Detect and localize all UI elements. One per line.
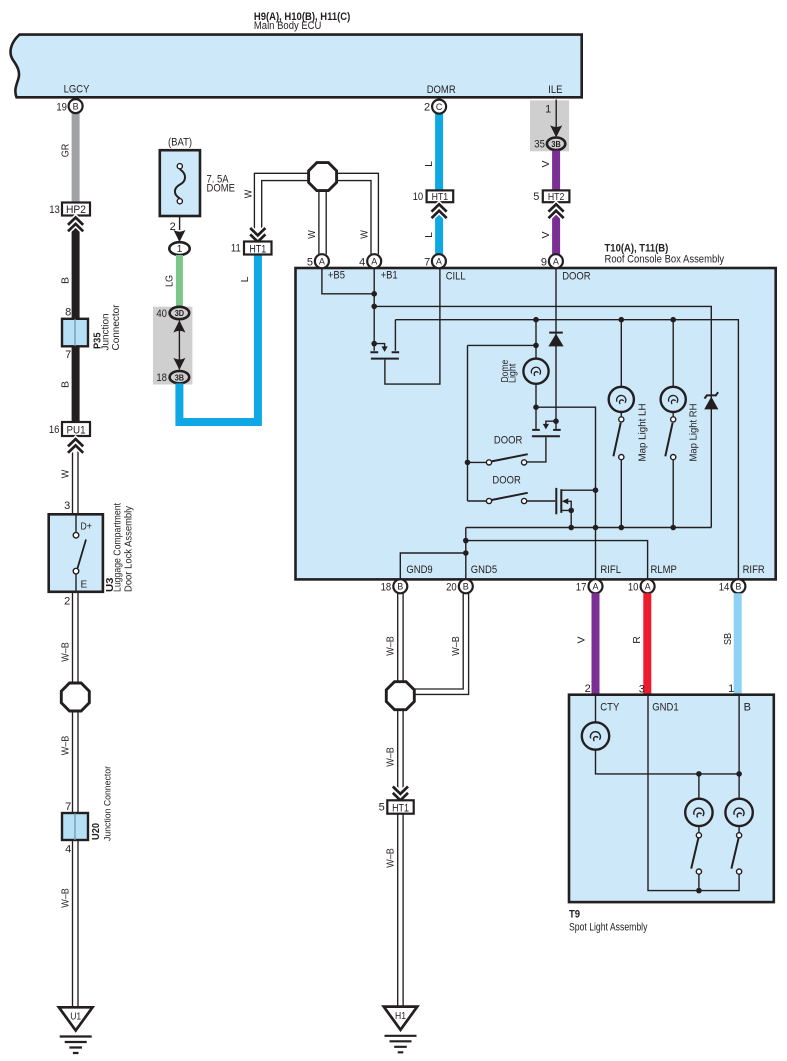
svg-text:U20: U20 (90, 823, 102, 840)
svg-text:Junction Connector: Junction Connector (103, 766, 113, 841)
svg-text:5: 5 (379, 802, 385, 814)
svg-text:A: A (319, 257, 325, 267)
svg-text:PU1: PU1 (67, 424, 86, 436)
svg-text:18: 18 (381, 582, 392, 594)
svg-text:H1: H1 (395, 1011, 406, 1022)
svg-text:17: 17 (576, 582, 587, 594)
svg-text:L: L (423, 232, 435, 238)
svg-text:10: 10 (413, 191, 424, 203)
svg-text:20: 20 (446, 582, 457, 594)
svg-text:GND1: GND1 (652, 701, 678, 713)
svg-text:7: 7 (65, 801, 71, 813)
svg-text:SB: SB (722, 633, 734, 645)
svg-text:+B1: +B1 (381, 270, 398, 282)
svg-text:B: B (60, 381, 72, 388)
svg-text:7: 7 (65, 349, 71, 361)
svg-text:B: B (397, 582, 403, 592)
svg-text:RLMP: RLMP (651, 564, 677, 576)
svg-text:3D: 3D (175, 308, 184, 318)
svg-text:1: 1 (177, 244, 183, 255)
svg-text:A: A (645, 582, 651, 592)
svg-text:3: 3 (64, 500, 70, 512)
svg-text:LG: LG (164, 275, 176, 287)
svg-text:11: 11 (231, 242, 241, 254)
svg-text:W–B: W–B (450, 636, 462, 656)
svg-text:(BAT): (BAT) (168, 137, 192, 149)
svg-text:Light: Light (508, 364, 519, 383)
svg-text:HT1: HT1 (392, 803, 409, 815)
svg-text:V: V (576, 636, 588, 643)
svg-text:A: A (371, 257, 377, 267)
svg-text:DOOR: DOOR (494, 434, 522, 446)
svg-text:W: W (243, 190, 255, 199)
svg-text:10: 10 (628, 582, 639, 594)
svg-text:5: 5 (533, 191, 539, 203)
svg-text:2: 2 (424, 102, 430, 114)
svg-text:B: B (60, 277, 72, 284)
svg-text:16: 16 (49, 424, 60, 436)
svg-text:Roof Console Box Assembly: Roof Console Box Assembly (605, 254, 725, 266)
svg-text:C: C (436, 102, 443, 112)
svg-text:U1: U1 (70, 1012, 81, 1023)
svg-text:7: 7 (424, 257, 430, 269)
svg-text:L: L (239, 276, 251, 282)
svg-text:Map Light LH: Map Light LH (638, 404, 649, 462)
svg-text:14: 14 (719, 582, 730, 594)
svg-text:A: A (592, 582, 598, 592)
svg-text:GND5: GND5 (471, 564, 497, 576)
svg-text:Spot Light Assembly: Spot Light Assembly (569, 922, 648, 934)
svg-text:Connector: Connector (111, 304, 122, 351)
svg-text:W: W (306, 230, 318, 239)
svg-text:Junction: Junction (101, 314, 112, 351)
svg-text:4: 4 (359, 256, 365, 268)
svg-text:DOMR: DOMR (427, 84, 456, 96)
svg-text:5: 5 (307, 256, 313, 268)
svg-text:13: 13 (49, 204, 60, 216)
svg-text:B: B (463, 582, 469, 592)
svg-text:1: 1 (545, 104, 551, 116)
svg-text:DOOR: DOOR (492, 475, 520, 487)
svg-text:W–B: W–B (60, 888, 72, 908)
svg-text:W–B: W–B (60, 642, 72, 662)
svg-text:Main Body ECU: Main Body ECU (254, 20, 322, 32)
svg-text:A: A (436, 257, 442, 267)
svg-text:DOME: DOME (207, 183, 235, 195)
svg-text:8: 8 (65, 306, 71, 318)
svg-text:RIFR: RIFR (743, 564, 765, 576)
svg-text:T9: T9 (569, 909, 580, 921)
svg-text:CILL: CILL (446, 271, 466, 283)
svg-text:Door Lock Assembly: Door Lock Assembly (124, 506, 135, 592)
svg-text:V: V (540, 160, 552, 167)
svg-text:W: W (60, 470, 72, 479)
svg-text:Luggage Compartment: Luggage Compartment (113, 503, 124, 592)
svg-text:B: B (73, 102, 79, 112)
svg-text:D+: D+ (81, 522, 92, 533)
svg-text:CTY: CTY (600, 701, 620, 713)
svg-text:40: 40 (156, 308, 167, 320)
svg-text:35: 35 (534, 139, 545, 151)
svg-text:HT1: HT1 (249, 243, 266, 255)
svg-text:LGCY: LGCY (64, 84, 90, 96)
svg-text:9: 9 (541, 257, 547, 269)
svg-text:GND9: GND9 (406, 564, 432, 576)
svg-text:E: E (81, 580, 88, 591)
svg-text:A: A (553, 257, 559, 267)
svg-text:V: V (540, 231, 552, 238)
svg-text:RIFL: RIFL (600, 564, 621, 576)
svg-text:3B: 3B (551, 139, 560, 149)
svg-text:DOOR: DOOR (562, 271, 590, 283)
svg-text:B: B (735, 582, 741, 592)
svg-text:W–B: W–B (385, 848, 397, 868)
svg-text:GR: GR (60, 143, 72, 157)
svg-text:ILE: ILE (548, 84, 562, 96)
svg-text:W–B: W–B (385, 747, 397, 767)
svg-text:18: 18 (156, 372, 167, 384)
svg-text:W–B: W–B (60, 736, 72, 756)
svg-text:+B5: +B5 (328, 270, 345, 282)
svg-text:2: 2 (64, 595, 70, 607)
svg-text:W: W (359, 230, 371, 239)
svg-text:Map Light RH: Map Light RH (689, 404, 700, 462)
svg-text:3B: 3B (175, 372, 184, 382)
svg-text:4: 4 (65, 843, 71, 855)
svg-text:19: 19 (56, 101, 67, 113)
svg-text:R: R (631, 636, 643, 644)
svg-text:L: L (423, 161, 435, 167)
svg-text:W–B: W–B (385, 636, 397, 656)
svg-text:B: B (744, 701, 751, 713)
